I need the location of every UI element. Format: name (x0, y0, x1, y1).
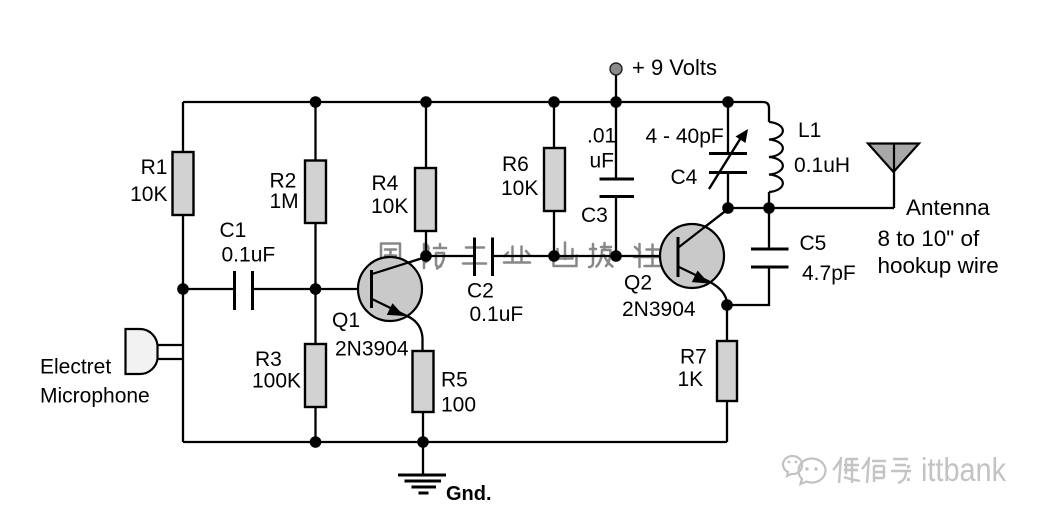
svg-text:4.7pF: 4.7pF (802, 262, 856, 285)
svg-text:Electret: Electret (40, 356, 111, 379)
svg-text:0.1uH: 0.1uH (794, 154, 850, 177)
svg-text:R4: R4 (372, 172, 399, 195)
svg-text:100K: 100K (252, 370, 301, 393)
svg-text:R6: R6 (502, 153, 529, 176)
svg-text:R3: R3 (255, 348, 282, 371)
svg-text:100: 100 (441, 394, 476, 417)
svg-text:Q1: Q1 (332, 309, 360, 332)
svg-text:C2: C2 (467, 280, 494, 303)
svg-text:1M: 1M (270, 190, 299, 213)
svg-text:+ 9 Volts: + 9 Volts (632, 55, 717, 80)
svg-text:Gnd.: Gnd. (446, 483, 492, 505)
svg-text:Antenna: Antenna (906, 195, 990, 220)
svg-text:0.1uF: 0.1uF (222, 244, 276, 267)
svg-text:.01: .01 (587, 125, 616, 148)
svg-text:ittbank: ittbank (921, 451, 1006, 488)
svg-text:Microphone: Microphone (40, 385, 150, 408)
svg-text:Q2: Q2 (624, 272, 652, 295)
svg-text:8 to 10" of: 8 to 10" of (878, 226, 981, 251)
svg-text::: : (904, 453, 913, 488)
svg-text:C1: C1 (220, 219, 247, 242)
svg-text:10K: 10K (501, 177, 538, 200)
svg-text:10K: 10K (130, 183, 167, 206)
svg-text:C3: C3 (581, 204, 608, 227)
svg-text:hookup wire: hookup wire (878, 253, 999, 278)
svg-text:4 - 40pF: 4 - 40pF (646, 125, 724, 148)
svg-text:C4: C4 (671, 166, 698, 189)
svg-text:C5: C5 (800, 232, 827, 255)
svg-text:10K: 10K (371, 195, 408, 218)
svg-text:2N3904: 2N3904 (622, 298, 696, 321)
svg-text:0.1uF: 0.1uF (470, 303, 524, 326)
svg-text:2N3904: 2N3904 (335, 338, 409, 361)
svg-text:L1: L1 (798, 119, 821, 142)
svg-text:R7: R7 (680, 346, 707, 369)
svg-text:R5: R5 (441, 369, 468, 392)
svg-text:uF: uF (590, 150, 615, 173)
svg-text:R1: R1 (141, 156, 168, 179)
svg-text:1K: 1K (678, 368, 704, 391)
